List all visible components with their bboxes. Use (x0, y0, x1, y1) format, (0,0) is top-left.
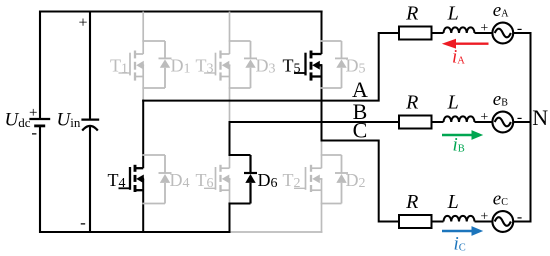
svg-text:-: - (31, 123, 37, 142)
svg-text:N: N (532, 105, 548, 130)
transistor T3 (204, 51, 230, 81)
+ sign of eB (480, 110, 488, 125)
label T2 (283, 170, 301, 191)
node B label (353, 99, 368, 124)
wire bottom DC- rail (active part) (39, 231, 231, 233)
svg-text:+: + (480, 21, 488, 36)
wire D6 branch to rail (229, 204, 231, 234)
label D5 (346, 56, 366, 77)
diode D6 (244, 155, 257, 204)
label D6 (258, 170, 278, 191)
label L (phase C) (447, 191, 459, 213)
transistor T4 (119, 165, 145, 192)
AC source eA (492, 23, 513, 44)
label R (phase B) (405, 92, 418, 114)
resistor R (phase A) (399, 27, 432, 40)
wire neutral vertical (530, 33, 532, 222)
wire D6 parallel stubs (228, 155, 250, 204)
resistor R (phase C) (399, 215, 432, 228)
svg-text:L: L (447, 3, 459, 25)
wire phase B down to D6 branch (229, 122, 231, 155)
diode D2 (335, 155, 348, 204)
- sign of eB (517, 109, 522, 126)
svg-text:R: R (405, 3, 418, 25)
wire R to L (phase A) (432, 32, 444, 34)
label D2 (346, 170, 366, 191)
label R (phase A) (405, 3, 418, 25)
+ sign of eC (480, 209, 488, 224)
wire leg1 upper vertical (drain of T1) (142, 12, 144, 55)
wire T6 source vertical (229, 179, 231, 204)
battery + sign (29, 105, 37, 121)
svg-text:L: L (447, 191, 459, 213)
label iC (454, 234, 466, 255)
wire D3 parallel stubs (229, 41, 251, 88)
label T4 (108, 170, 126, 191)
DC-link + sign (78, 14, 87, 31)
transistor T2 (294, 165, 322, 192)
battery Udc plates (29, 119, 50, 126)
svg-text:-: - (517, 208, 522, 225)
node A label (352, 77, 368, 102)
transistor T5 (294, 51, 322, 81)
wire D5 parallel stubs (321, 41, 342, 88)
wire source to neutral (phase C) (513, 221, 531, 223)
label D4 (170, 170, 190, 191)
label T6 (196, 170, 214, 191)
wire leg3 source vertical down to phase C (321, 65, 323, 141)
node C label (353, 118, 368, 143)
svg-text:-: - (517, 109, 522, 126)
wire leg2 upper source vertical (229, 65, 231, 122)
wire left DC rail (lower) (39, 126, 41, 233)
capacitor Uin plates (81, 120, 99, 131)
svg-text:+: + (29, 105, 37, 121)
wire D1 parallel stubs (142, 41, 165, 88)
transistor T1 (119, 51, 145, 81)
wire L to source (phase B) (475, 121, 493, 123)
svg-text:+: + (480, 209, 488, 224)
AC source eC (492, 211, 513, 232)
wire phase C output (321, 141, 399, 222)
wire L to source (phase C) (475, 221, 493, 223)
wire phase A output (142, 33, 398, 101)
wire T4 source vertical to rail (142, 179, 144, 233)
wire capacitor top lead (89, 11, 91, 120)
label eA (493, 0, 509, 21)
wire left DC rail (upper) (39, 11, 41, 120)
wire T2 source vertical to rail (321, 179, 323, 233)
label T1 (110, 56, 128, 77)
diode D5 (335, 41, 348, 88)
- sign of eA (517, 20, 522, 37)
diode D1 (159, 41, 172, 88)
wire capacitor bottom lead (89, 126, 91, 233)
wire source to neutral (phase A) (513, 32, 531, 34)
wire D2 parallel stubs (321, 155, 342, 204)
label iB (453, 135, 465, 156)
svg-text:R: R (405, 92, 418, 114)
label L (phase A) (447, 3, 459, 25)
wire leg3 upper vertical (drain of T5) (321, 11, 323, 55)
wire D4 parallel stubs (142, 155, 165, 204)
svg-text:+: + (78, 14, 87, 31)
svg-text:L: L (447, 92, 459, 114)
label eB (493, 89, 508, 110)
current arrow iA (442, 39, 489, 49)
- sign of eC (517, 208, 522, 225)
inductor L (phase A) (444, 27, 475, 33)
svg-text:C: C (353, 118, 368, 143)
inductor L (phase B) (444, 116, 475, 122)
wire R to L (phase B) (432, 121, 444, 123)
wire T6 drain vertical (229, 155, 231, 168)
svg-text:-: - (80, 213, 86, 232)
DC-link - sign (80, 213, 86, 232)
label eC (493, 188, 508, 209)
label Udc (5, 110, 31, 131)
wire R to L (phase C) (432, 221, 444, 223)
node N label (532, 105, 548, 130)
svg-text:R: R (405, 191, 418, 213)
wire leg1 upper source vertical (142, 65, 144, 100)
diode D3 (244, 41, 257, 88)
diode D4 (159, 155, 172, 204)
+ sign of eA (480, 21, 488, 36)
current arrow iB (442, 130, 483, 140)
wire phase B output (229, 121, 399, 123)
current arrow iC (442, 226, 483, 236)
label D3 (256, 56, 276, 77)
AC source eB (492, 112, 513, 133)
wire top DC+ rail (39, 10, 323, 12)
label iA (452, 47, 465, 68)
wire T2 drain vertical (321, 141, 323, 169)
transistor T6 (204, 165, 230, 192)
svg-text:-: - (517, 20, 522, 37)
inductor L (phase C) (444, 216, 475, 222)
label L (phase B) (447, 92, 459, 114)
battery - sign (31, 123, 37, 142)
label T3 (196, 56, 214, 77)
label R (phase C) (405, 191, 418, 213)
wire bottom DC- rail (inactive part) (230, 231, 323, 233)
wire source to neutral (phase B) (513, 121, 531, 123)
wire L to source (phase A) (475, 32, 493, 34)
label D1 (171, 56, 191, 77)
label T5 (283, 56, 301, 77)
svg-text:+: + (480, 110, 488, 125)
wire leg2 upper vertical (drain of T3) (229, 12, 231, 55)
resistor R (phase B) (399, 116, 432, 129)
label Uin (57, 110, 81, 131)
wire T4 drain vertical (142, 100, 144, 169)
